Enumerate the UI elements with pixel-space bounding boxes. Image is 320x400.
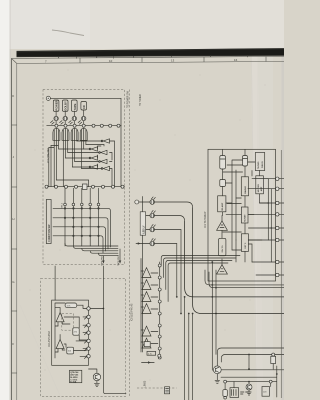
node E1 (46, 96, 50, 100)
level shifter T1 (217, 216, 228, 239)
sheet right edge line (280, 150, 282, 398)
pencil mark (52, 30, 84, 36)
IC box U5 (256, 176, 264, 194)
connector J2 (165, 387, 170, 394)
adjacent page white edge strip (0, 0, 10, 400)
svg-text:IC1 TA7343AP: IC1 TA7343AP (204, 211, 207, 228)
LED D6 (150, 210, 185, 221)
wire with arrow to LED D8 (136, 242, 143, 244)
capacitor C1 (220, 156, 226, 170)
buffer U3a (141, 268, 158, 278)
sheet border ruler top (12, 56, 285, 63)
label TO TUNER (140, 94, 142, 106)
svg-text:TAPE: TAPE (73, 103, 77, 110)
transistor Q3 (89, 369, 101, 381)
output pin rail (158, 262, 161, 359)
svg-text:L9603: L9603 (143, 380, 146, 387)
control block wires (223, 149, 269, 262)
svg-text:13: 13 (171, 58, 175, 62)
wire with arrow out (142, 361, 155, 364)
wire mesh extra (223, 162, 256, 262)
resistor R11 top (65, 303, 77, 308)
inner right rails (267, 179, 272, 262)
svg-text:K 30A: K 30A (70, 380, 77, 383)
dashed boundary bottom (137, 387, 177, 389)
wire routing to inverters (49, 141, 104, 187)
control block outline (208, 149, 276, 281)
indicator label POWER (53, 100, 59, 111)
svg-text:TO POWER SW: TO POWER SW (127, 90, 129, 108)
edge pin row (276, 177, 284, 277)
buffer U3f (141, 338, 158, 348)
svg-text:FUNCTION SW: FUNCTION SW (48, 224, 51, 242)
svg-text:TA7640: TA7640 (244, 214, 247, 222)
svg-text:K: K (12, 94, 14, 98)
svg-text:F: F (12, 342, 14, 346)
label box LED LEVEL (140, 212, 145, 235)
IC box U8 (241, 234, 248, 252)
driver array A3 (71, 128, 78, 140)
right paper edge darker (282, 49, 285, 400)
svg-text:10: 10 (109, 59, 113, 63)
svg-text:POWER: POWER (55, 100, 59, 110)
faint creases (20, 305, 62, 400)
node F1 (135, 200, 143, 204)
connector pins P1-P7 (84, 307, 104, 359)
label box 4.7k (147, 351, 161, 357)
bus bottom with junctions (45, 185, 125, 188)
sheet border ruler left (12, 58, 17, 400)
wire top feed (50, 98, 121, 125)
dashed enclosure: headphone amp board (41, 278, 126, 396)
driver array A1 (53, 128, 60, 140)
indicator label CD (81, 102, 87, 111)
LED D3 (69, 111, 77, 124)
bus drop rail 3 (192, 313, 194, 400)
IC label box TA7630P (255, 153, 264, 171)
wires to edge pins (226, 179, 276, 275)
label TO POWER SW (127, 90, 129, 108)
resistor R32 (262, 387, 269, 397)
level shifter T2 (217, 259, 228, 274)
svg-text:P49-01: P49-01 (261, 160, 264, 168)
ground GND1 (215, 374, 220, 384)
svg-text:H: H (12, 217, 14, 221)
resistor R22 (219, 238, 226, 256)
capacitor C2 (243, 156, 248, 167)
IC box U7 TA7640 (241, 207, 248, 223)
driver array A4 (80, 128, 87, 140)
LED D8 (150, 238, 177, 297)
label IC2 (48, 331, 51, 347)
label IC8 LED (132, 303, 134, 321)
label marks (241, 392, 249, 394)
switch matrix label box (46, 200, 51, 244)
driver array A2 (62, 128, 69, 140)
svg-text:TAPE PB R: TAPE PB R (117, 254, 120, 266)
vertical paper crease highlight (251, 56, 263, 400)
svg-text:22k 1%: 22k 1% (222, 245, 224, 252)
svg-text:CD: CD (82, 105, 86, 109)
dashed sub-circuit (62, 314, 74, 331)
bus wire 2 (193, 208, 284, 314)
board separator dashed line (129, 90, 131, 398)
inverter U1c (99, 150, 107, 154)
part number box (70, 370, 82, 383)
resistor R21 (220, 180, 226, 187)
transistor Q1 (213, 366, 221, 374)
ground GND3 (94, 381, 99, 387)
bus drop rail 1 (184, 296, 186, 400)
switch matrix rows (53, 208, 111, 253)
LED D2 (60, 111, 68, 124)
block bottom exit wires (205, 270, 284, 288)
svg-text:BA4560: BA4560 (244, 185, 247, 193)
buffer input rail (140, 259, 142, 353)
switch matrix columns (64, 188, 100, 246)
LED D1 (51, 111, 59, 124)
label IC1 TA7343AP (204, 211, 207, 228)
buffer U3e (141, 326, 158, 336)
label L9603 (143, 380, 146, 387)
matrix exit arrow left (100, 254, 104, 266)
svg-text:DET 2: DET 2 (245, 242, 247, 249)
LED rail left (143, 197, 150, 353)
label IC1 (47, 148, 50, 163)
svg-text:IC2 AN7145M: IC2 AN7145M (48, 331, 51, 347)
cluster wires (221, 355, 284, 398)
resistor R14 (144, 342, 150, 347)
wire entering board (54, 266, 56, 300)
amp board internal wires (55, 303, 87, 358)
inverter U1d (89, 156, 97, 160)
resistor R1 on bus (82, 184, 87, 189)
LED D5 (150, 197, 193, 208)
inverter U1e (99, 159, 107, 163)
cluster top wires (217, 348, 284, 366)
dashed enclosure: function indicator board (43, 90, 125, 265)
transistor Q2 (246, 381, 252, 390)
matrix exit arrow right (117, 249, 121, 266)
amp board outline (52, 300, 89, 365)
scan speckles (30, 70, 266, 381)
svg-text:VR AMP: VR AMP (221, 202, 224, 211)
inverter U1g (101, 166, 109, 170)
indicator label TAPE (72, 100, 78, 111)
bus drop rail 2 (188, 313, 190, 400)
block drop rails (211, 261, 217, 370)
resistor R31 (223, 383, 227, 399)
junction dots on buses (211, 284, 250, 355)
inverter U1f (89, 165, 97, 169)
bus with junctions (anode rail) (47, 124, 121, 127)
svg-text:TA7630: TA7630 (257, 161, 260, 169)
resistor R12 (73, 328, 79, 335)
svg-text:4.7k: 4.7k (67, 306, 71, 308)
matrix junction dots (64, 207, 100, 237)
wire inverter outputs to right rail (98, 126, 122, 187)
switch matrix column bends (65, 244, 118, 256)
buffer U3d (141, 304, 158, 314)
ground GND2 (247, 390, 251, 395)
LED D4 (78, 110, 86, 124)
wire gate outputs (49, 140, 86, 186)
scanned page header band (17, 48, 285, 57)
svg-text:TAPE PB L: TAPE PB L (100, 254, 103, 266)
diode D9 (271, 353, 276, 363)
svg-text:16: 16 (234, 58, 238, 62)
svg-text:4.7k: 4.7k (148, 353, 152, 355)
inverter U1a (101, 139, 109, 143)
svg-text:SW-1: SW-1 (61, 202, 63, 208)
label SW1 (61, 202, 63, 208)
IC box U6 (218, 196, 226, 212)
resistor R13 (67, 347, 74, 354)
LED D7 (150, 224, 181, 313)
wire chain to control block (161, 256, 240, 302)
wire from matrix to pin rail (103, 266, 126, 394)
svg-text:IC8 LED PH-14S: IC8 LED PH-14S (132, 303, 134, 321)
IC box U4 (241, 177, 248, 196)
indicator label DOLBY (62, 100, 68, 111)
op-amp U2b (56, 335, 64, 353)
relay box K1 (230, 382, 239, 398)
bus wire 1 (185, 221, 284, 297)
svg-text:TO TUNER: TO TUNER (140, 94, 142, 106)
svg-text:MUTING: MUTING (258, 184, 260, 193)
svg-text:DOLBY: DOLBY (64, 101, 68, 111)
buffer U3b (141, 280, 158, 290)
op-amp U2a (56, 308, 64, 326)
wire LED drops (176, 296, 182, 314)
svg-text:IC1 QTA-34P: IC1 QTA-34P (47, 148, 50, 163)
inverter U1b (89, 147, 97, 151)
buffer U3c (141, 292, 158, 302)
svg-text:LED LV: LED LV (143, 225, 145, 233)
